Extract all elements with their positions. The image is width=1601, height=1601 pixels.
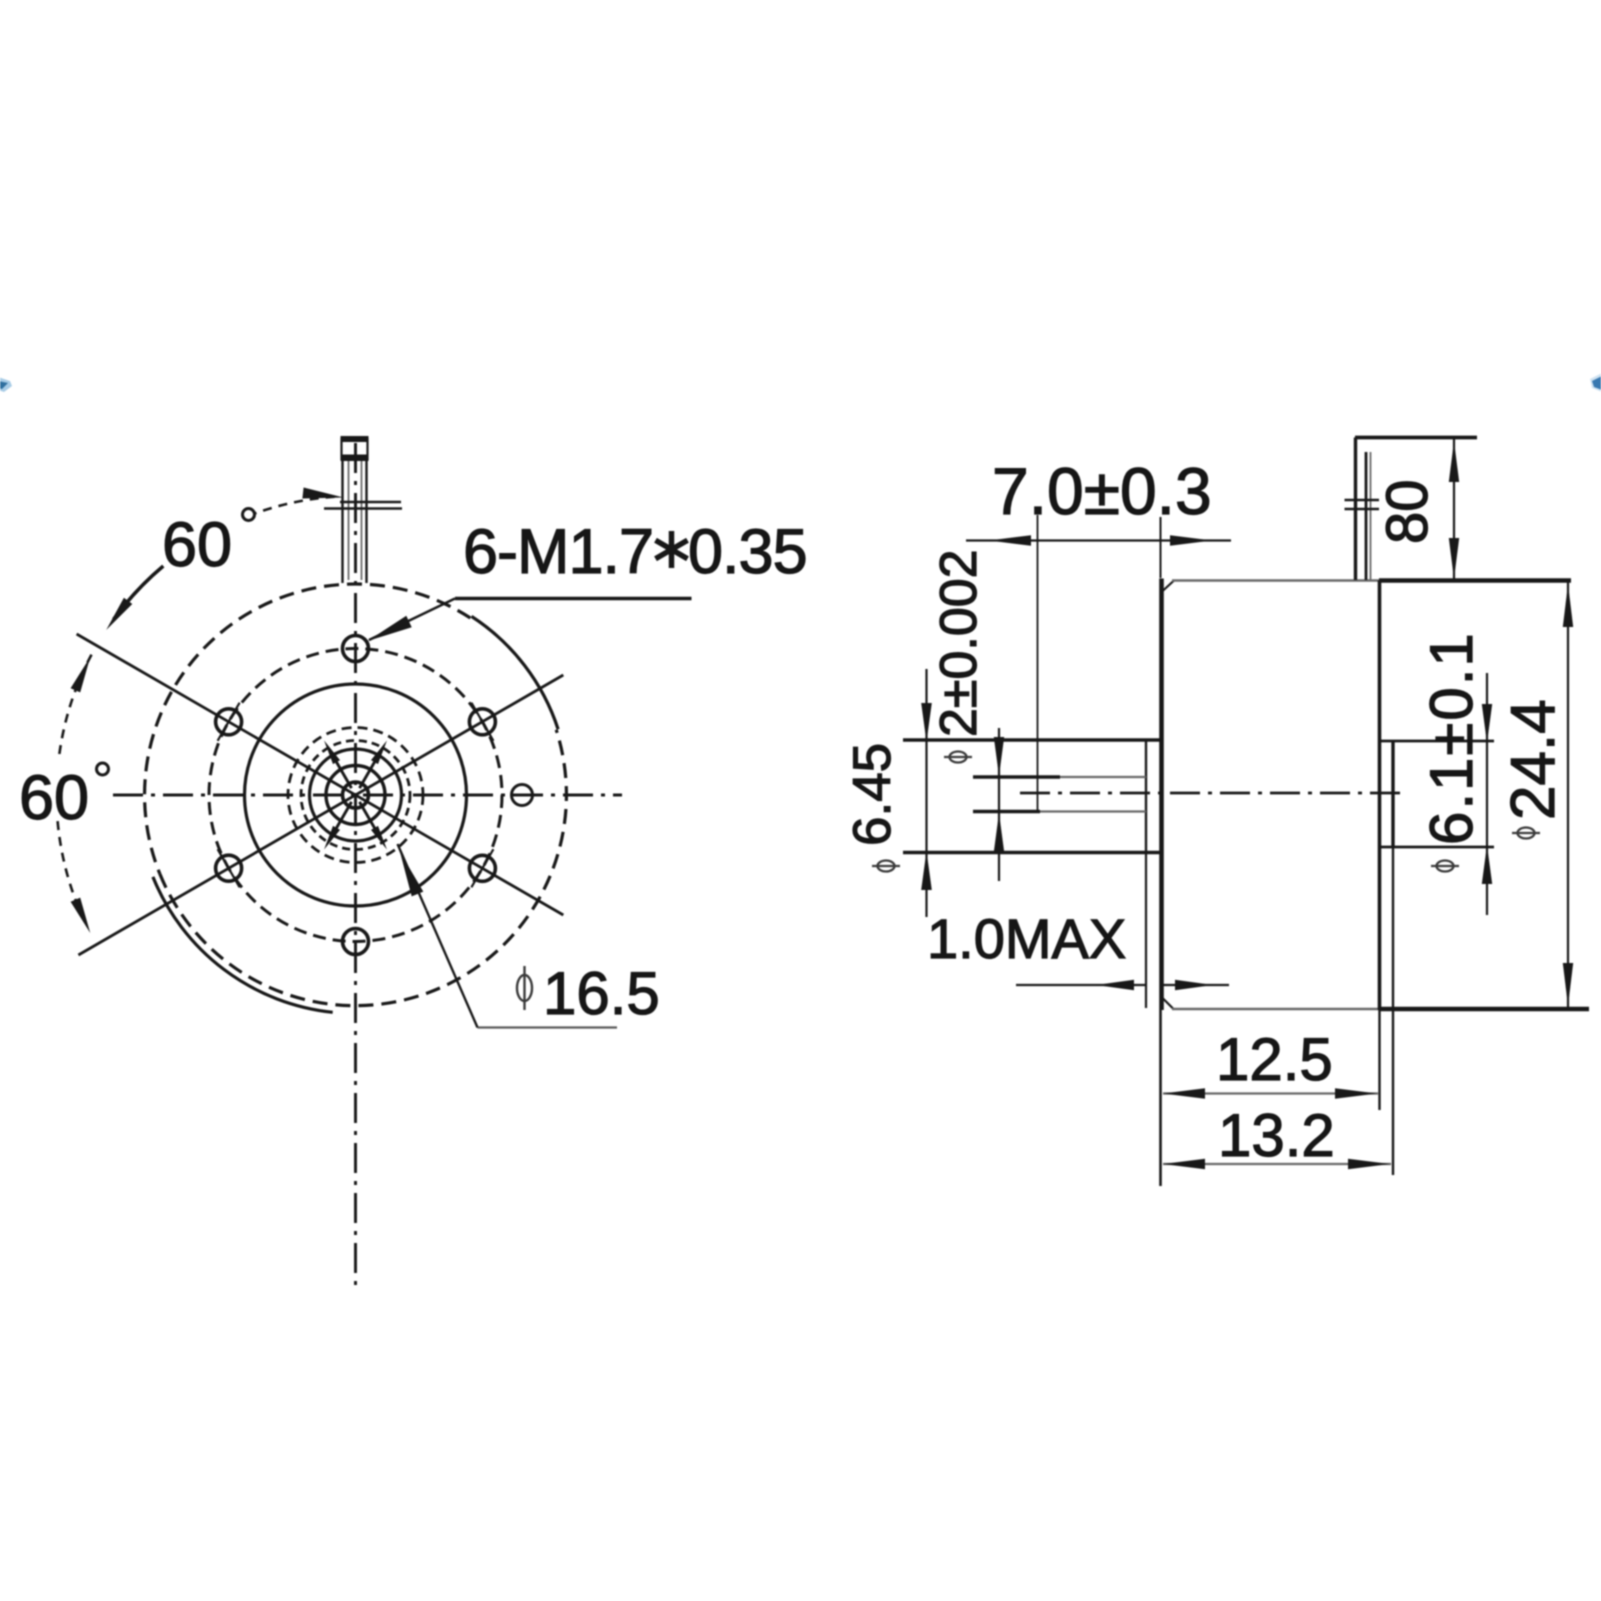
shaft end / ext line for 7.0 bbox=[1037, 515, 1039, 813]
screw hole at 30 deg with cross tick bbox=[469, 709, 495, 735]
blue watermark mark left edge bbox=[0, 377, 12, 392]
rear hub bbox=[1391, 741, 1394, 847]
front view: shaft circle r13 bbox=[343, 782, 369, 808]
label phi16.5 bbox=[517, 975, 532, 1001]
terminal pin crossbars bbox=[1345, 499, 1380, 501]
front view: inner dashed circle r68 bbox=[288, 728, 423, 863]
svg-text:6-M1.7: 6-M1.7 bbox=[463, 517, 653, 587]
dim phi6.45 (boss dia) bbox=[925, 669, 927, 917]
screw hole at 210 deg with cross tick bbox=[216, 855, 242, 881]
svg-text:60: 60 bbox=[162, 510, 232, 580]
front boss outline / ext lines for 6.45 bbox=[903, 738, 1161, 741]
front view: diagonal centerline 30-210 deg bbox=[78, 675, 563, 955]
side view horizontal centerline bbox=[1020, 792, 1404, 795]
front view: motor outer body circle (hidden/dashed) bbox=[145, 584, 471, 874]
60deg dimension arc (top), solid part bbox=[114, 566, 164, 619]
dim 2+-0.002 (shaft dia) bbox=[998, 728, 1000, 881]
svg-text:1.0MAX: 1.0MAX bbox=[927, 907, 1126, 970]
dim phi24.4 (body dia) bbox=[1567, 582, 1569, 1008]
svg-text:12.5: 12.5 bbox=[1216, 1026, 1333, 1093]
svg-text:6.45: 6.45 bbox=[843, 743, 902, 846]
screw hole at 330 deg with cross tick bbox=[469, 855, 495, 881]
60deg dimension arc (left), dashed bbox=[59, 655, 91, 756]
boss front face bbox=[1145, 741, 1147, 852]
chamfer top-left bbox=[1162, 581, 1175, 593]
svg-text:6.1±0.1: 6.1±0.1 bbox=[1418, 631, 1485, 845]
screw hole top (12 o-clock) bbox=[343, 636, 369, 662]
svg-text:2±0.002: 2±0.002 bbox=[930, 549, 988, 737]
front view: gearbox circle bbox=[245, 684, 467, 906]
front view: bearing circle r29 bbox=[326, 766, 385, 825]
hub bottom edge / ext line for 6.1 bbox=[1381, 846, 1494, 849]
svg-text:0.35: 0.35 bbox=[688, 517, 807, 587]
svg-text:16.5: 16.5 bbox=[543, 960, 660, 1027]
dim 80 (terminal height) bbox=[1453, 439, 1455, 581]
chamfer bottom-left bbox=[1162, 997, 1175, 1010]
svg-text:7.0±0.3: 7.0±0.3 bbox=[992, 454, 1212, 528]
terminal box left edge bbox=[1354, 438, 1357, 581]
body bottom edge bbox=[1172, 1008, 1379, 1010]
front shaft washer flange bbox=[340, 501, 401, 504]
front view: inner dashed circle r55 bbox=[301, 741, 410, 850]
terminal pin bbox=[1365, 452, 1368, 580]
hub top edge / ext line for 6.1 bbox=[1381, 740, 1494, 743]
front view: horizontal centerline (dash-dot) bbox=[113, 794, 622, 797]
screw hole bottom (6 o-clock) bbox=[343, 929, 369, 955]
front view: short radial spokes with arrow tips bbox=[360, 752, 381, 788]
front view: diagonal centerline 150-330 deg bbox=[77, 634, 564, 915]
front view: hub circle r46 bbox=[310, 749, 402, 841]
svg-text:24.4: 24.4 bbox=[1499, 699, 1568, 820]
front shaft body bbox=[341, 461, 343, 583]
front view: outer body solid arc upper-right bbox=[472, 616, 559, 729]
leader to top screw hole bbox=[369, 599, 455, 641]
terminal box top bbox=[1355, 436, 1477, 440]
front view: vertical centerline (dash-dot) bbox=[354, 443, 357, 1293]
body rear face bbox=[1378, 581, 1382, 1011]
front shaft cap bbox=[341, 436, 369, 442]
side view: flange front face bbox=[1159, 579, 1164, 1011]
svg-text:60: 60 bbox=[19, 763, 89, 833]
arc arrowhead at shaft (top 60) bbox=[302, 488, 343, 499]
svg-text:80: 80 bbox=[1375, 479, 1440, 544]
svg-text:13.2: 13.2 bbox=[1218, 1102, 1335, 1169]
arc arrowhead pair at 150deg line bbox=[106, 598, 132, 630]
60deg dimension arc (top), dashed part near shaft bbox=[253, 497, 334, 514]
blue watermark mark right edge bbox=[1590, 373, 1601, 392]
arc arrowhead at 210deg line bbox=[71, 898, 91, 934]
body top edge bbox=[1172, 579, 1379, 581]
front view: can seam solid arc lower-left bbox=[153, 877, 333, 1012]
leader for phi16.5 bbox=[398, 844, 478, 1028]
screw hole at 150 deg with cross tick bbox=[216, 709, 242, 735]
side shaft outline bbox=[973, 775, 1060, 778]
small plain hole right side bbox=[512, 785, 533, 806]
front view: bolt circle phi16.5 (dash-dot) bbox=[209, 649, 502, 942]
asterisk in thread label bbox=[669, 531, 675, 568]
dim phi6.1+-0.1 (hub dia) bbox=[1486, 673, 1488, 915]
